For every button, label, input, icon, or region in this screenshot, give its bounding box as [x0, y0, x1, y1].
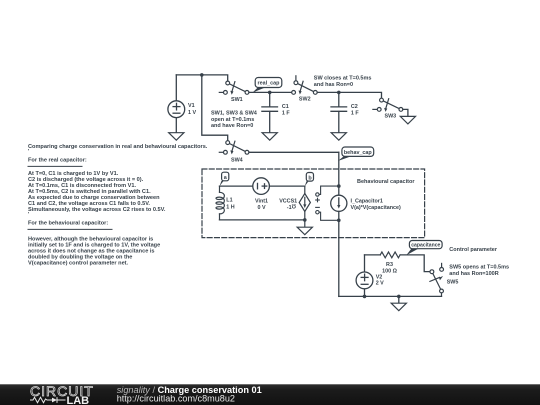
svg-text:and has Ron=100R: and has Ron=100R: [449, 271, 498, 277]
dashed behavioural box: [202, 169, 425, 238]
ground right of SW3: [400, 116, 415, 124]
svg-text:SW2: SW2: [299, 96, 311, 102]
switch SW5: [430, 263, 444, 296]
resistor R3: [380, 252, 400, 258]
footer bar: [0, 384, 540, 405]
svg-text:For the behavioural capacitor:: For the behavioural capacitor:: [28, 221, 108, 227]
wire bottom rail: [339, 295, 442, 297]
svg-text:100 Ω: 100 Ω: [382, 268, 397, 274]
svg-text:I_Capacitor1: I_Capacitor1: [351, 198, 383, 204]
separator line 1: [28, 165, 82, 167]
svg-text:V(a)*V(capacitance): V(a)*V(capacitance): [351, 205, 402, 211]
wire a to Vint1: [220, 185, 253, 187]
svg-text:SW1, SW3 & SW4: SW1, SW3 & SW4: [211, 110, 258, 116]
svg-text:0 V: 0 V: [257, 205, 265, 211]
junction nodes on behav wire: [337, 184, 341, 188]
junction node at top wire: [200, 73, 204, 77]
wire R3 to SW5: [400, 255, 430, 272]
junction node V2 bottom: [363, 295, 367, 299]
wire bottom inner: [220, 219, 305, 221]
V1 label: [188, 103, 196, 116]
wire behav vertical down: [338, 152, 340, 195]
svg-text:behav_cap: behav_cap: [344, 150, 373, 156]
flag real_cap: [252, 78, 281, 93]
wire SW2 to SW3: [317, 92, 381, 98]
svg-text:Control parameter: Control parameter: [449, 247, 498, 253]
svg-text:V1: V1: [188, 103, 195, 109]
svg-text:http://circuitlab.com/c8mu8u2: http://circuitlab.com/c8mu8u2: [117, 393, 235, 403]
ground below VCCS1: [297, 227, 312, 235]
wire junction down to SW4: [202, 75, 228, 141]
svg-text:Comparing charge conservation: Comparing charge conservation in real an…: [28, 144, 208, 150]
svg-text:real_cap: real_cap: [258, 81, 281, 87]
junction node VCCS bottom: [303, 218, 307, 222]
logo resistor squiggle: [31, 397, 66, 402]
svg-text:capacitance: capacitance: [411, 243, 440, 249]
junction node C2: [337, 91, 341, 95]
wire Vint1 to node b: [269, 185, 304, 187]
svg-text:V(capacitance) control paramet: V(capacitance) control parameter net.: [28, 261, 129, 267]
svg-text:1 V: 1 V: [188, 110, 196, 116]
flag behav_cap: [338, 147, 374, 161]
ground below C1: [262, 133, 277, 141]
svg-text:2 V: 2 V: [376, 281, 384, 287]
wire top from V1 to SW1: [176, 75, 227, 81]
L1 labels: [226, 198, 234, 211]
wire SW3 to ground: [403, 109, 408, 116]
svg-text:and has Ron=0: and has Ron=0: [314, 82, 353, 88]
wire SW4 to behavioural branch: [249, 151, 339, 153]
VCCS1 labels: [279, 199, 297, 211]
R3 labels: [382, 262, 397, 274]
svg-text:SW5 opens at T=0.5ms: SW5 opens at T=0.5ms: [449, 264, 509, 270]
svg-text:SW4: SW4: [231, 157, 243, 163]
svg-text:1 H: 1 H: [226, 204, 234, 210]
annotation: SW5 note: [449, 264, 509, 276]
svg-text:Ω: Ω: [291, 203, 296, 209]
svg-text:For the real capacitor:: For the real capacitor:: [28, 158, 87, 164]
VCCS1 dependent source: [299, 186, 310, 227]
svg-text:1 F: 1 F: [351, 110, 359, 116]
wire SW1 to SW2: [249, 91, 292, 93]
svg-text:SW1: SW1: [231, 97, 243, 103]
switch SW2: [292, 76, 317, 95]
svg-text:C2: C2: [351, 104, 358, 110]
C1 labels: [282, 104, 290, 117]
voltage source V2: [356, 255, 373, 297]
svg-text:Simultaneously, the voltage ac: Simultaneously, the voltage across C2 ri…: [28, 207, 166, 213]
svg-text:R3: R3: [386, 262, 393, 268]
capacitor C2: [331, 92, 347, 132]
svg-text:1 F: 1 F: [282, 110, 290, 116]
svg-text:L1: L1: [226, 198, 232, 204]
capacitor C1: [262, 92, 278, 132]
switch SW1: [219, 81, 249, 95]
separator line 2: [28, 228, 112, 230]
node flag a: [219, 172, 228, 186]
switch SW4: [219, 141, 249, 155]
svg-text:SW5: SW5: [447, 279, 459, 285]
switch SW3: [373, 98, 403, 112]
ground below V1: [169, 133, 184, 141]
annotation: left text block: [28, 144, 208, 267]
I_Capacitor1 control pins: [316, 186, 339, 220]
junction node real_cap / C1: [268, 91, 272, 95]
voltage source V1: [168, 75, 185, 133]
wire behav vertical lower: [338, 211, 340, 296]
svg-text:LAB: LAB: [67, 395, 90, 405]
Vint1 labels: [255, 199, 268, 211]
ground bottom rail: [391, 296, 406, 310]
node flag b: [305, 173, 314, 187]
voltage source Vint1: [253, 178, 270, 195]
svg-text:-1: -1: [287, 205, 292, 211]
annotation: SW closes note: [314, 75, 372, 88]
ground below C2: [331, 133, 346, 141]
svg-text:SW closes at T=0.5ms: SW closes at T=0.5ms: [314, 75, 372, 81]
V2 labels: [376, 275, 384, 287]
svg-text:and have Ron=0: and have Ron=0: [211, 123, 253, 129]
svg-text:C1: C1: [282, 104, 289, 110]
C2 labels: [351, 104, 359, 117]
behavioural current source I_Capacitor1: [331, 195, 347, 211]
annotation: SW1 SW3 SW4 note: [211, 110, 258, 129]
svg-text:Vint1: Vint1: [255, 199, 268, 205]
inductor L1: [216, 186, 224, 220]
svg-text:open at T=0.1ms: open at T=0.1ms: [211, 117, 254, 123]
svg-text:SW3: SW3: [385, 113, 397, 119]
junction node ground rail: [397, 295, 401, 299]
I_Capacitor1 labels: [351, 198, 402, 211]
wire V2 to R3: [365, 254, 381, 256]
svg-text:Behavioural capacitor: Behavioural capacitor: [357, 179, 415, 185]
flag capacitance: [406, 241, 442, 256]
